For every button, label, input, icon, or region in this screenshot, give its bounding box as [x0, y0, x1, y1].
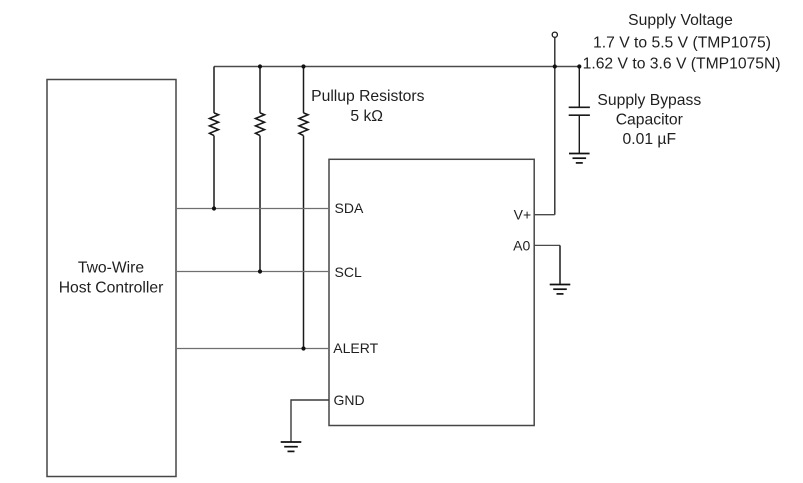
svg-text:Host Controller: Host Controller [59, 280, 164, 297]
wire SCL [176, 271, 329, 273]
svg-text:SDA: SDA [335, 200, 364, 216]
node junction rail/capacitor [577, 64, 581, 68]
supply terminal circle [552, 32, 557, 37]
node junction SCL/R2 [258, 269, 262, 273]
ground GND [281, 442, 302, 451]
ground A0 [550, 285, 571, 294]
svg-text:Supply Bypass: Supply Bypass [597, 92, 701, 109]
node junction rail/R3 [301, 64, 305, 68]
svg-text:A0: A0 [513, 237, 530, 253]
resistor R3 [299, 67, 308, 349]
node junction ALERT/R3 [301, 346, 305, 350]
capacitor C1 [569, 67, 590, 154]
svg-text:1.62 V to 3.6 V (TMP1075N): 1.62 V to 3.6 V (TMP1075N) [583, 56, 781, 73]
wire A0 pin stub [534, 244, 560, 246]
svg-text:Pullup Resistors: Pullup Resistors [311, 88, 424, 105]
svg-text:V+: V+ [514, 207, 532, 223]
svg-text:SCL: SCL [335, 264, 362, 280]
wire ALERT [176, 348, 329, 350]
host controller box [47, 80, 176, 477]
node junction rail/R2 [258, 64, 262, 68]
ground capacitor [569, 154, 590, 163]
node junction rail/supply [553, 64, 557, 68]
svg-text:1.7 V to 5.5 V (TMP1075): 1.7 V to 5.5 V (TMP1075) [593, 34, 771, 51]
svg-text:ALERT: ALERT [333, 340, 378, 356]
svg-text:GND: GND [334, 392, 365, 408]
svg-text:0.01 µF: 0.01 µF [623, 131, 677, 148]
wire V+ pin stub [534, 214, 555, 216]
supply rail wire [214, 66, 579, 68]
node junction SDA/R1 [212, 206, 216, 210]
svg-text:Supply Voltage: Supply Voltage [628, 12, 733, 29]
wire GND [291, 400, 329, 442]
resistor R1 [210, 67, 219, 209]
wire SDA [176, 208, 329, 210]
svg-text:5 kΩ: 5 kΩ [350, 108, 383, 125]
svg-text:Two-Wire: Two-Wire [78, 260, 145, 277]
IC U1 box [329, 159, 534, 425]
svg-text:Capacitor: Capacitor [616, 112, 683, 129]
wire supply stub [554, 38, 556, 215]
resistor R2 [256, 67, 265, 272]
